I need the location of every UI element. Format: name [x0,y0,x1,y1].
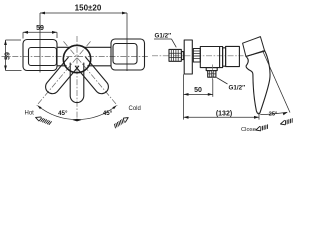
svg-text:G1/2″: G1/2″ [155,33,172,40]
svg-text:50: 50 [194,87,202,94]
lever handle rotated left 40deg [43,57,79,96]
union nut [193,49,200,63]
open position reference line [263,51,291,113]
close striped arrow 2 [280,118,294,126]
arc end arrowheads [38,106,42,110]
left inner plate [29,48,57,66]
svg-text:45°: 45° [103,110,113,117]
wall extension line [183,74,185,119]
dimension 59 vertical [4,40,21,71]
25deg arc [260,112,287,114]
body bar bottom edge [57,65,66,67]
label G1/2 outlet [217,78,246,92]
svg-text:G1/2″: G1/2″ [229,85,246,92]
svg-text:Close: Close [241,127,256,133]
svg-text:Hot: Hot [25,110,35,116]
wall flange [184,40,192,74]
dimension 150±20 [40,4,127,73]
body face line [219,47,221,68]
svg-text:25°: 25° [269,112,278,118]
vertical centerline through cartridge [76,36,78,122]
spacer plate [182,52,184,60]
label G1/2 top [154,33,176,48]
shower outlet threaded nipple [208,71,216,78]
outlet centerline [212,65,214,81]
dimension 59 horizontal [23,25,57,39]
right inner plate [113,44,137,65]
mixer body [200,47,222,68]
hot striped arrow [35,115,52,125]
horizontal centerline of body [2,56,149,58]
right escutcheon block [111,39,145,70]
svg-text:(132): (132) [216,110,232,117]
ring between body and hub [223,48,226,66]
svg-text:Cold: Cold [129,106,141,112]
left escutcheon block [23,40,57,71]
svg-text:45°: 45° [58,110,68,117]
handle hub [226,46,240,66]
lever blade closed position [246,51,270,114]
cold striped arrow [113,116,129,128]
arc center twin arrowheads [73,119,78,122]
right 45-deg handle centerline [64,41,118,105]
lever handle vertical position [70,63,84,103]
lever cap open position [243,37,265,57]
body bar top edge [57,46,70,48]
close striped arrow 1 [255,124,269,132]
left 45-deg handle centerline [37,41,91,105]
lever handle rotated right 40deg [75,57,111,96]
svg-text:150±20: 150±20 [75,4,102,13]
cartridge dome circle [63,45,90,72]
side view horizontal centerline [152,55,244,57]
45deg swing arc [38,106,117,120]
svg-text:59: 59 [36,25,44,32]
dimension (132) [184,110,260,119]
shower outlet collar [206,68,217,71]
dimension 50 [184,80,213,97]
wall union threaded nipple [169,49,181,61]
